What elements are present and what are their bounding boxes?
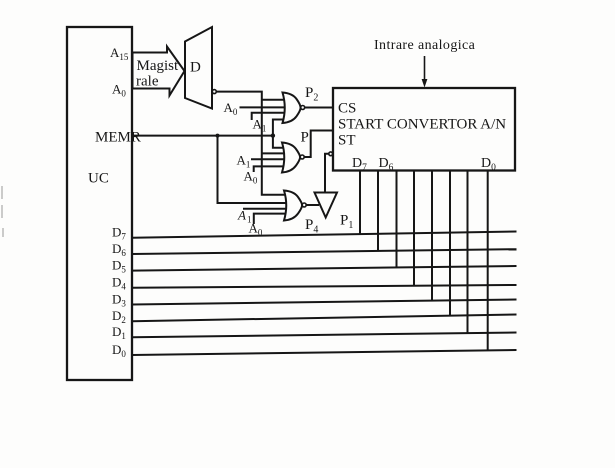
data line D6	[132, 249, 517, 254]
svg-text:D: D	[190, 60, 201, 76]
bus label Magistrale	[136, 58, 179, 90]
wire A1 into gate P2	[252, 113, 290, 120]
converter A/N block	[333, 88, 515, 171]
decoder D	[185, 27, 212, 109]
wire bus to gate P2 input	[262, 99, 289, 101]
data line D0	[132, 350, 517, 355]
gate P2 output bubble	[301, 106, 305, 110]
wire A0 into gate P2	[240, 106, 291, 108]
data line D4	[132, 285, 517, 288]
converter pin wire D2	[449, 171, 451, 316]
wire MEMR up to gate P2	[273, 120, 287, 136]
wire A1 into gate P4	[243, 208, 288, 210]
wire MEMR down to gate P	[273, 136, 286, 148]
svg-text:A: A	[237, 208, 246, 223]
svg-text:Intrare analogica: Intrare analogica	[374, 38, 476, 53]
UC block	[67, 27, 132, 380]
converter pin wire D7	[359, 171, 361, 235]
decoder output bubble	[212, 90, 216, 94]
wire A1 into gate P	[251, 158, 287, 160]
converter pin wire D4	[413, 171, 415, 286]
svg-text:START CONVERTOR A/N: START CONVERTOR A/N	[338, 117, 506, 133]
junction MEMR branch 2	[271, 133, 275, 137]
converter pin wire D5	[396, 171, 398, 268]
data line D1	[132, 333, 517, 338]
svg-text:P: P	[301, 130, 309, 146]
converter pin wire D3	[431, 171, 433, 301]
NOR gate P2	[283, 93, 301, 124]
analog input arrow	[422, 56, 428, 88]
junction MEMR branch 1	[216, 134, 220, 138]
tri-state buffer P1	[315, 193, 338, 218]
bus arrow Magistrale	[133, 47, 185, 96]
svg-text:ST: ST	[338, 133, 356, 149]
wire MEMR down to gate P4	[218, 136, 289, 203]
wire MEMR	[132, 135, 273, 137]
converter pin wire D0	[487, 171, 489, 351]
data line D7	[132, 232, 517, 238]
wire P4 to buffer enable	[306, 204, 319, 206]
wire P2 to CS	[305, 107, 333, 109]
NOR gate P4	[284, 191, 302, 221]
wire A0 into gate P4	[254, 214, 289, 224]
svg-text:CS: CS	[338, 101, 356, 117]
wire A0 into gate P	[254, 166, 287, 172]
wire decoder output bus	[216, 92, 288, 195]
svg-text:rale: rale	[136, 74, 159, 90]
data line D5	[132, 266, 517, 271]
data line D2	[132, 315, 517, 322]
svg-text:MEMR: MEMR	[95, 130, 141, 146]
NOR gate P	[282, 143, 300, 173]
svg-text:UC: UC	[88, 171, 109, 187]
converter pin wire D6	[377, 171, 379, 251]
wire EOC to buffer input	[325, 154, 329, 193]
svg-text:Magist: Magist	[137, 58, 180, 74]
data line D3	[132, 300, 517, 305]
wire P to START	[304, 131, 333, 158]
gate P4 output bubble	[302, 203, 306, 207]
gate P output bubble	[300, 155, 304, 159]
wire bus to gate P input	[262, 152, 287, 154]
scan artifact marks left margin	[2, 186, 3, 237]
converter EOC bubble	[329, 152, 333, 156]
converter pin wire D1	[467, 171, 469, 334]
